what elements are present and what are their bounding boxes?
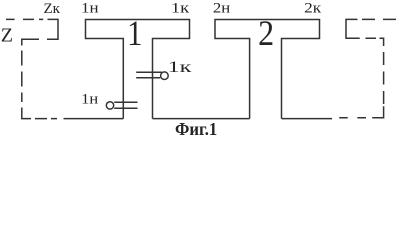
right phantom winding: flange bottom segment with corner: [366, 38, 384, 46]
right phantom winding: right dashed vertical: [383, 52, 385, 106]
wire: solid bottom line right of winding 2: [282, 118, 333, 120]
node Z phantom winding: bottom dashed line: [22, 108, 57, 119]
svg-text:Zк: Zк: [44, 1, 61, 17]
svg-text:1к: 1к: [171, 1, 190, 17]
terminal 1k circle: [161, 72, 169, 80]
svg-text:Z: Z: [1, 25, 13, 47]
winding 1 outline (T-shaped section): [86, 20, 190, 119]
svg-text:1: 1: [127, 15, 142, 54]
svg-text:2н: 2н: [213, 1, 230, 17]
right phantom winding: top dashed line: [362, 18, 396, 20]
right phantom winding: bottom corner: [372, 106, 383, 118]
node Z phantom winding: flange bottom left segment: [22, 39, 39, 45]
terminal 1n lead wires: [114, 102, 137, 108]
right phantom winding: bottom dashed line: [339, 117, 366, 119]
svg-text:1н: 1н: [81, 1, 99, 17]
svg-text:Фиг.1: Фиг.1: [175, 119, 217, 136]
svg-text:1н: 1н: [81, 92, 98, 108]
svg-text:2: 2: [258, 14, 274, 53]
node Z phantom winding: left dashed vertical: [21, 51, 23, 103]
svg-text:2к: 2к: [304, 1, 322, 17]
right phantom winding: terminal notch bracket: [346, 19, 360, 38]
terminal 1k lead wires: [136, 72, 162, 77]
svg-text:1к: 1к: [168, 59, 192, 76]
terminal 1n circle: [106, 102, 113, 109]
wire: solid bottom line left of winding 1: [64, 118, 124, 120]
winding 2 outline (T-shaped section): [215, 20, 320, 119]
node Z phantom winding: top dashed line: [6, 18, 43, 20]
terminal Zk notch bracket: [47, 19, 58, 39]
wire: bottom line between winding 1 and winding 2: [153, 118, 250, 120]
